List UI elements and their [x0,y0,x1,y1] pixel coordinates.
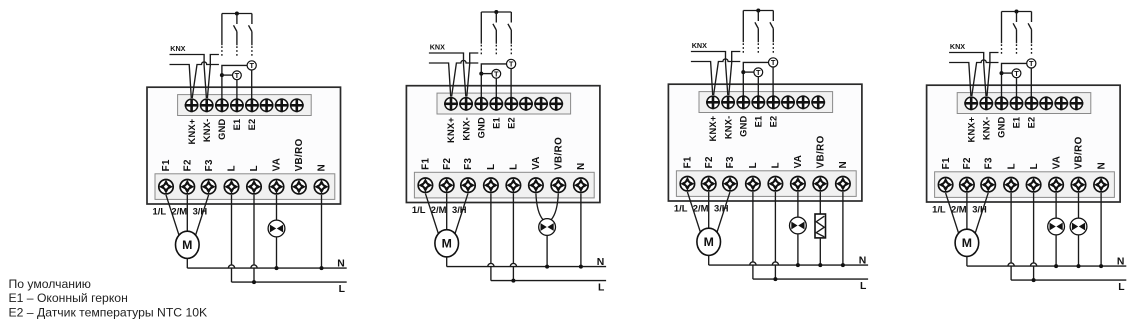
wire VB/RO to thermal actuator [819,192,821,214]
wire valve 3way to N bus [546,235,548,266]
wire VB/RO to valve B [1078,193,1080,218]
schematic diagram 4 [927,10,1127,294]
node valve VA on N bus [796,263,800,267]
svg-text:По умолчанию: По умолчанию [9,277,91,291]
wire valve VB to N bus [1078,235,1080,266]
wire VA to valve A [1055,193,1057,218]
node thermal actuator on N bus [818,263,822,267]
valve VA (ball valve symbol) [1048,218,1065,235]
wire VB/RO to 3-way valve [551,193,558,219]
node valve 3way on N bus [545,265,549,269]
valve 3way (ball valve symbol) [539,219,556,236]
svg-text:E2 – Датчик температуры NTC 10: E2 – Датчик температуры NTC 10K [9,305,208,319]
wire VA to 3-way valve [536,193,543,219]
schematic diagram 2 [406,10,606,294]
svg-text:E1 – Оконный геркон: E1 – Оконный геркон [9,291,128,305]
wire valve VA to N bus [1055,235,1057,266]
node valve VA on N bus [275,266,279,270]
schematic diagram 1 [147,12,347,296]
wire valve VA to N bus [276,237,278,268]
thermal actuator RO (zigzag) [815,214,826,238]
node valve VA on N bus [1054,264,1058,268]
wire valve VA to N bus [797,234,799,265]
wire VA to valve [797,192,799,217]
node valve VB on N bus [1077,264,1081,268]
valve VB (ball valve symbol) [1070,218,1087,235]
wire VA to valve [276,195,278,220]
wire thermal actuator to N bus [819,238,821,265]
valve VA (ball valve symbol) [790,217,807,234]
schematic diagram 3 [668,9,868,293]
valve VA (ball valve symbol) [268,220,285,237]
